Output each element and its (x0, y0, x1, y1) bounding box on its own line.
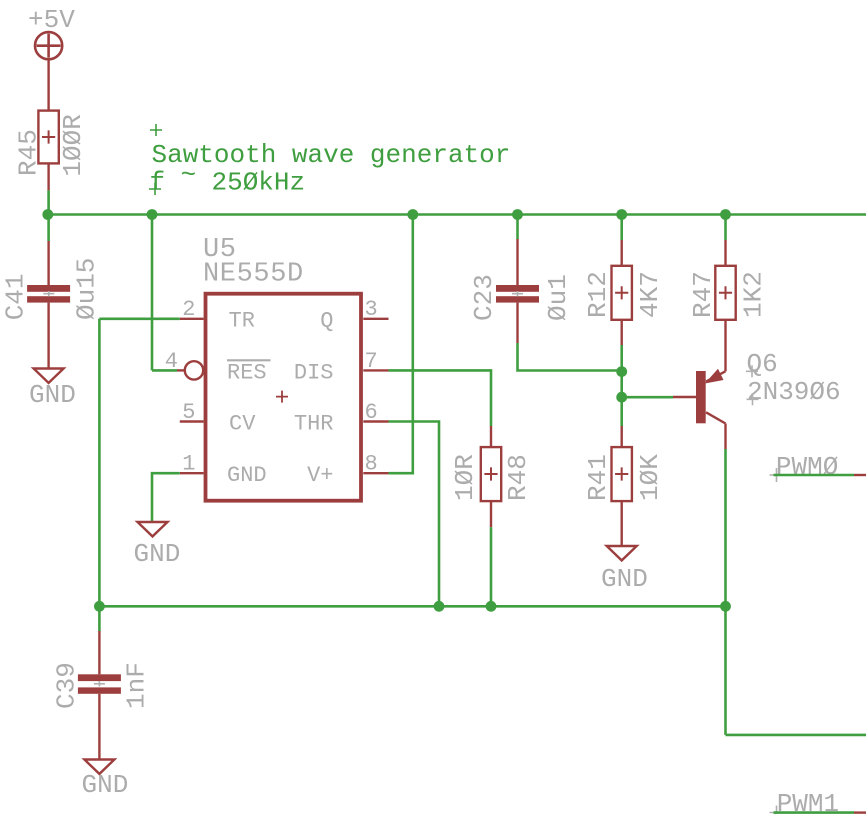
svg-text:+5V: +5V (28, 5, 75, 35)
node junction R48 column (486, 601, 497, 612)
svg-text:PWM1: PWM1 (777, 789, 839, 814)
svg-text:TR: TR (229, 309, 255, 334)
svg-text:V+: V+ (307, 463, 333, 488)
svg-text:2: 2 (182, 297, 195, 322)
node junction R12 (616, 209, 627, 220)
svg-text:6: 6 (365, 400, 378, 425)
svg-text:Øu1: Øu1 (543, 274, 573, 321)
resistor R48 (450, 426, 533, 527)
svg-text:R45: R45 (13, 129, 43, 176)
svg-text:1nF: 1nF (121, 662, 151, 709)
wire R12 bottom (620, 345, 623, 426)
svg-text:R41: R41 (583, 454, 613, 501)
node junction C23 (512, 209, 523, 220)
node junction pin4 column (147, 209, 158, 220)
pin 7 DIS stub (363, 369, 388, 371)
node junction C23/R12 (616, 366, 627, 377)
svg-text:1ØR: 1ØR (450, 454, 480, 501)
capacitor C23 (469, 215, 573, 344)
wire THR net (389, 422, 440, 607)
wire V+ net (389, 215, 413, 474)
svg-text:C41: C41 (1, 273, 31, 320)
svg-text:CV: CV (229, 411, 256, 436)
wire top +5V rail (48, 213, 866, 216)
wire R48 to bottom rail (490, 527, 493, 606)
svg-text:GND: GND (227, 463, 267, 488)
wire pin2 net horizontal (99, 317, 179, 320)
resistor R41 (583, 426, 665, 546)
svg-text:DIS: DIS (294, 360, 334, 385)
wire DIS net (389, 370, 492, 426)
svg-text:R48: R48 (503, 454, 533, 501)
svg-text:R12: R12 (583, 271, 613, 318)
svg-text:GND: GND (29, 380, 76, 410)
wire collector to right edge (726, 734, 866, 737)
pin 3 Q stub (363, 318, 388, 320)
svg-text:4K7: 4K7 (635, 271, 665, 318)
svg-text:1K2: 1K2 (739, 271, 769, 318)
svg-text:3: 3 (365, 297, 378, 322)
svg-text:25ØkHz: 25ØkHz (212, 168, 306, 198)
resistor R45 (13, 111, 88, 191)
node junction base (616, 392, 627, 403)
svg-text:f: f (150, 168, 166, 198)
transistor Q2 base pin (673, 396, 697, 398)
svg-text:NE555D: NE555D (203, 260, 304, 290)
node PWM0 origin cross (770, 468, 784, 482)
title text origin cross (150, 124, 162, 136)
wire bottom rail (99, 605, 725, 608)
svg-text:Q: Q (320, 309, 333, 334)
ground GND U5 pin1 (134, 522, 181, 569)
svg-text:~: ~ (181, 160, 197, 190)
pin 4 RES bubble (185, 361, 203, 379)
svg-text:Sawtooth wave generator: Sawtooth wave generator (152, 140, 511, 170)
pin 5 CV stub (180, 420, 204, 422)
node junction collector column (720, 601, 731, 612)
svg-text:R47: R47 (688, 271, 718, 318)
svg-text:C23: C23 (469, 274, 499, 321)
svg-text:1ØØR: 1ØØR (58, 114, 88, 176)
wire pin2 net vertical (98, 319, 101, 607)
node junction R47 (720, 209, 731, 220)
node junction THR column (434, 601, 445, 612)
node junction C39 column (94, 601, 105, 612)
resistor R47 (688, 215, 769, 320)
ground GND C39 (82, 760, 129, 801)
pin 1 GND stub (180, 472, 204, 474)
resistor R12 (583, 215, 665, 346)
wire pin1 to ground (152, 473, 180, 522)
pin stub PWM1 right edge (854, 811, 866, 813)
wire pin4 net vertical (151, 215, 154, 371)
pin 8 V+ stub (363, 472, 388, 474)
node junction R45/C41 (42, 209, 53, 220)
wire C23 bottom to R12 net (518, 343, 622, 371)
ground GND C41 (29, 369, 76, 411)
wire collector down (724, 449, 727, 735)
svg-text:2N39Ø6: 2N39Ø6 (747, 377, 841, 407)
svg-text:7: 7 (365, 349, 378, 374)
wire PWM0 (774, 474, 855, 477)
svg-text:THR: THR (294, 411, 334, 436)
node PWM1 origin cross (770, 806, 784, 814)
wire R45 to rail (47, 190, 50, 215)
wire PWM1 (774, 811, 855, 814)
op-amp U5 NE555D box (203, 235, 361, 501)
svg-text:Q6: Q6 (747, 349, 778, 379)
svg-text:Øu15: Øu15 (72, 258, 102, 320)
svg-text:RES: RES (227, 360, 267, 385)
node junction V+ column (407, 209, 418, 220)
wire base net (622, 396, 673, 399)
svg-text:GND: GND (82, 770, 129, 800)
svg-text:8: 8 (365, 452, 378, 477)
wire +5V to R45 (47, 59, 49, 110)
svg-text:PWMØ: PWMØ (776, 452, 838, 482)
svg-text:GND: GND (134, 539, 181, 569)
pin 2 TR stub (180, 318, 204, 320)
supply +5V symbol (35, 32, 62, 59)
capacitor C39 (52, 606, 152, 759)
svg-text:1ØK: 1ØK (635, 454, 665, 501)
svg-text:5: 5 (182, 400, 195, 425)
transistor Q6 2N3906 (696, 320, 841, 449)
svg-text:1: 1 (182, 452, 195, 477)
pin 6 THR stub (363, 420, 388, 422)
subtitle origin cross (149, 183, 161, 195)
ground GND R41 (601, 546, 648, 594)
pin stub PWM0 right edge (854, 474, 866, 476)
svg-text:GND: GND (601, 564, 648, 594)
svg-text:4: 4 (165, 349, 178, 374)
capacitor C41 (1, 215, 102, 369)
wire pin4 net horizontal (152, 369, 177, 372)
svg-text:C39: C39 (52, 662, 82, 709)
